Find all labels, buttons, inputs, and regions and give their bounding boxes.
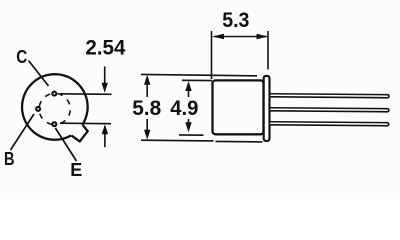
dim 2.54 upper arrow <box>104 67 106 85</box>
header flange <box>264 76 270 141</box>
can body (side view) <box>213 80 264 134</box>
pin circle (dashed) <box>55 93 71 124</box>
lead 1 <box>269 94 389 98</box>
dim 2.54 lower arrow <box>104 134 106 148</box>
leader E <box>55 128 76 161</box>
can outline (bottom view circle) <box>22 74 88 140</box>
pin B <box>36 107 40 111</box>
pin C <box>52 92 56 96</box>
dim 5.8 bottom extension <box>141 139 214 142</box>
dim 4.9 bottom extension <box>179 134 204 136</box>
dim 5.3 left extension <box>211 31 213 79</box>
dim 5.8 line <box>146 84 148 97</box>
svg-text:4.9: 4.9 <box>170 95 198 120</box>
dim 5.3 right extension <box>267 31 269 70</box>
lead 2 <box>269 108 389 112</box>
dim 5.8 top extension <box>141 74 257 75</box>
svg-text:B: B <box>4 148 15 169</box>
lead 3 <box>269 122 389 126</box>
leader B <box>11 114 35 150</box>
svg-text:E: E <box>70 159 82 180</box>
svg-text:C: C <box>16 46 27 67</box>
dim 4.9 top extension <box>182 79 212 81</box>
dim 5.3 line <box>214 36 267 38</box>
svg-text:5.3: 5.3 <box>222 7 249 32</box>
pin E <box>52 122 56 126</box>
tab (index lug on can) <box>72 125 88 141</box>
svg-text:2.54: 2.54 <box>85 35 125 60</box>
svg-text:5.8: 5.8 <box>132 95 161 120</box>
dim 2.54 top extension line <box>60 93 112 96</box>
dim 2.54 bottom extension line <box>60 122 111 125</box>
dim 4.9 line <box>188 91 190 98</box>
leader C <box>29 61 49 87</box>
